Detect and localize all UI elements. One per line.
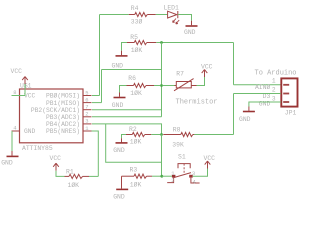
wire down to JP1 pin 1: [234, 43, 281, 85]
svg-text:R1: R1: [66, 169, 74, 176]
svg-text:VCC: VCC: [11, 68, 23, 75]
wire R8 to D3 net: [194, 134, 233, 136]
svg-text:ATTINY85: ATTINY85: [22, 145, 53, 152]
ground GND at R5: [112, 56, 128, 70]
wire junction column to S1: [161, 135, 163, 177]
ground GND at U1 pin 4: [1, 156, 18, 166]
svg-text:To Arduino: To Arduino: [255, 70, 297, 78]
wire R7 to VCC: [197, 77, 205, 86]
node junction R5 row: [160, 41, 163, 44]
wire R5 to AIN0 net: [156, 42, 233, 44]
resistor R8: [163, 126, 194, 148]
svg-text:2: 2: [171, 177, 174, 184]
svg-text:PBØ(MOSI): PBØ(MOSI): [46, 92, 80, 100]
svg-text:GND: GND: [112, 102, 124, 109]
svg-text:PB5(NRES): PB5(NRES): [46, 128, 80, 135]
svg-text:1ØK: 1ØK: [131, 46, 143, 54]
svg-text:33Ø: 33Ø: [131, 18, 143, 26]
svg-text:PB3(ADC3): PB3(ADC3): [46, 114, 80, 121]
svg-text:3: 3: [85, 118, 88, 125]
wire S1 pin 3 to VCC: [193, 168, 208, 176]
wire VCC to pin 8: [12, 84, 26, 96]
power flag VCC at S1: [204, 155, 216, 169]
wire junction to S1 pin 1: [162, 175, 172, 177]
svg-text:7: 7: [85, 104, 88, 111]
svg-text:1ØK: 1ØK: [130, 181, 142, 189]
svg-text:R4: R4: [131, 5, 139, 12]
svg-text:8: 8: [13, 89, 16, 96]
net label D3: [263, 93, 271, 100]
wire D3 net: [234, 94, 281, 135]
pins 5,6,7,2,3,1 right side of U$1: [83, 89, 92, 132]
svg-text:4: 4: [193, 178, 197, 185]
pin 8 VCC of U$1: [12, 89, 20, 96]
svg-text:1ØK: 1ØK: [130, 89, 142, 97]
svg-text:2: 2: [85, 111, 88, 118]
svg-text:LED1: LED1: [164, 5, 180, 12]
svg-text:VCC: VCC: [204, 155, 216, 162]
svg-text:VCC: VCC: [50, 155, 62, 162]
svg-text:2: 2: [272, 87, 276, 94]
wire PB0 to R4: [92, 15, 129, 96]
wire LED1 cathode to ground: [178, 15, 192, 26]
wire junction to R7: [163, 85, 175, 87]
resistor R5: [127, 34, 156, 54]
svg-text:GND: GND: [239, 116, 251, 123]
svg-text:3: 3: [272, 95, 276, 102]
svg-text:PB2(SCK/ADC1): PB2(SCK/ADC1): [31, 107, 80, 114]
svg-text:Thermistor: Thermistor: [176, 98, 218, 106]
svg-text:AINØ: AINØ: [255, 83, 271, 91]
wire R3 left to ground: [121, 176, 123, 188]
svg-text:JP1: JP1: [285, 110, 297, 117]
wire PB3 of U1: [92, 116, 162, 118]
svg-text:6: 6: [85, 96, 88, 103]
wire R5 left to ground: [122, 43, 128, 56]
pin number 1 of JP1: [272, 78, 276, 85]
svg-text:GND: GND: [113, 193, 125, 200]
svg-text:VCC: VCC: [24, 93, 36, 100]
wire R1 to pin 1 net: [89, 175, 98, 177]
ground GND at LED1: [184, 26, 198, 36]
resistor R1: [65, 169, 90, 190]
LED LED1: [164, 5, 180, 24]
wire pin 4 to ground: [11, 131, 13, 156]
resistor R2: [126, 126, 151, 145]
wire PB1 up to AIN0 net: [92, 70, 162, 103]
wire AIN0 vertical net: [161, 43, 163, 117]
svg-text:R2: R2: [129, 126, 137, 133]
svg-text:39K: 39K: [172, 141, 184, 148]
svg-text:GND: GND: [113, 147, 125, 154]
pin number 3 of JP1: [272, 95, 276, 102]
svg-text:PB1(MISO): PB1(MISO): [46, 100, 80, 107]
power flag VCC at R1: [50, 155, 62, 171]
ground GND at JP1: [239, 112, 255, 124]
svg-text:4: 4: [13, 124, 17, 131]
svg-text:S1: S1: [178, 153, 186, 160]
connector JP1 box: [255, 70, 298, 117]
ground GND at R3: [113, 189, 128, 200]
wire R2 left to ground: [122, 135, 127, 143]
wire R6 to junction: [154, 85, 160, 87]
ground GND at R2: [113, 143, 127, 154]
pin number 2 of JP1: [272, 87, 276, 94]
net label AIN0: [255, 83, 271, 91]
svg-text:GND: GND: [184, 29, 196, 36]
svg-text:R3: R3: [130, 167, 138, 174]
svg-text:GND: GND: [24, 128, 36, 135]
wire JP1 pin 3 to ground: [249, 102, 281, 111]
wire R2 to junction: [151, 134, 160, 136]
wire R6 left to ground: [120, 86, 127, 97]
IC U$1 ATTINY85 box: [20, 82, 84, 152]
svg-text:1: 1: [272, 78, 276, 85]
svg-text:GND: GND: [112, 63, 124, 70]
thermistor R7: [174, 71, 218, 107]
wire R4 to LED1: [156, 14, 168, 16]
svg-text:GND: GND: [1, 160, 13, 167]
svg-text:U$1: U$1: [20, 82, 32, 89]
svg-text:PB4(ADC2): PB4(ADC2): [46, 121, 80, 128]
resistor R4: [129, 5, 156, 26]
wire VCC to R1: [56, 171, 65, 177]
power flag VCC at U$1 pin 8: [11, 68, 28, 84]
switch S1: [167, 153, 199, 185]
svg-text:R5: R5: [130, 34, 138, 41]
node junction S1 row: [160, 175, 163, 178]
wire PB4 branch to S1: [106, 124, 162, 162]
node junction thermistor row: [160, 84, 163, 87]
node junction R2/R8 row: [160, 133, 163, 136]
svg-text:R8: R8: [173, 126, 181, 133]
wire PB2 to AIN0 net: [92, 109, 162, 111]
svg-text:R6: R6: [128, 75, 136, 82]
svg-text:1ØK: 1ØK: [130, 138, 142, 146]
svg-text:R7: R7: [176, 71, 184, 78]
svg-text:1ØK: 1ØK: [68, 181, 80, 189]
wire PB5 to R1: [92, 131, 99, 176]
resistor R3: [122, 167, 153, 189]
wire PB4 down to R2/R8 junction: [92, 124, 162, 135]
svg-text:VCC: VCC: [201, 64, 213, 71]
svg-text:5: 5: [85, 89, 88, 96]
wire R3 to S1: [152, 175, 162, 177]
net label GND: [259, 100, 271, 107]
pins 1,2,3 pads of JP1: [283, 84, 289, 103]
ground GND at R6: [112, 98, 126, 110]
svg-text:GND: GND: [259, 100, 271, 107]
pin 4 GND of U$1: [12, 124, 20, 131]
resistor R6: [127, 75, 155, 97]
power flag VCC at R7: [201, 64, 213, 78]
